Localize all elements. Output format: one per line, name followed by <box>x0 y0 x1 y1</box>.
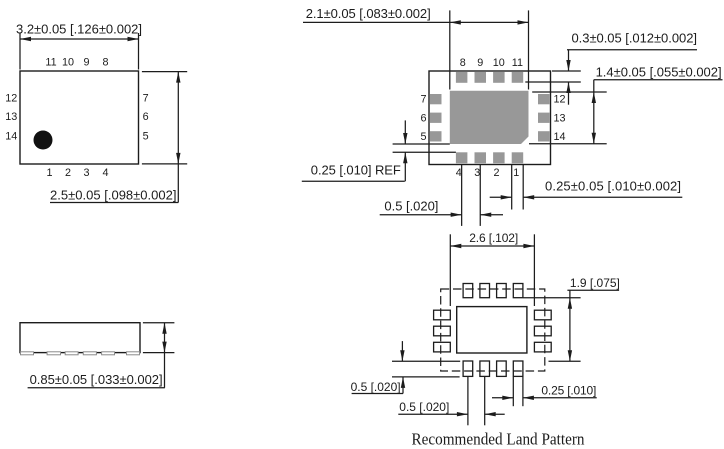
dimension 0.5 pitch label bottom view <box>380 199 503 217</box>
land pattern bottom pad b <box>480 361 490 376</box>
dimension 0.85 thickness label <box>28 372 165 388</box>
dimension 0.3 extension lines <box>525 71 581 82</box>
dimension 0.25 REF extension lines <box>393 144 456 152</box>
dimension 2.1 dimension line with arrows <box>303 20 529 24</box>
dimension 0.3 label <box>567 31 697 50</box>
bottom view pad 8 <box>456 72 468 83</box>
bottom view pad 7 <box>430 94 442 104</box>
svg-text:0.85±0.05 [.033±0.002]: 0.85±0.05 [.033±0.002] <box>30 372 163 387</box>
bottom view package outline <box>429 71 551 165</box>
dimension 2.1 extension lines <box>450 10 529 89</box>
top view pin numbers bottom row <box>46 167 108 179</box>
svg-text:9: 9 <box>83 57 89 69</box>
bottom view pad 13 <box>538 113 550 123</box>
svg-text:3: 3 <box>474 167 480 179</box>
svg-text:5: 5 <box>143 131 149 143</box>
side view terminal 1 <box>21 352 34 355</box>
dimension 0.5 pad length extension lines <box>392 361 460 377</box>
svg-text:14: 14 <box>5 131 17 143</box>
bottom view pin numbers right column <box>554 94 566 143</box>
svg-text:8: 8 <box>460 57 466 69</box>
svg-text:2.1±0.05 [.083±0.002]: 2.1±0.05 [.083±0.002] <box>306 6 431 21</box>
dimension 1.4 label <box>594 64 723 79</box>
svg-text:1.9 [.075]: 1.9 [.075] <box>570 276 620 290</box>
bottom pads extension ticks <box>462 164 524 226</box>
land pattern bottom pad c <box>497 361 507 376</box>
svg-text:10: 10 <box>62 57 74 69</box>
svg-text:14: 14 <box>554 131 566 143</box>
svg-text:11: 11 <box>512 57 523 69</box>
dimension 1.9 label <box>567 276 620 291</box>
svg-text:7: 7 <box>143 92 149 104</box>
bottom view pin numbers bottom row <box>456 167 519 179</box>
land pattern right pad a <box>534 310 551 320</box>
land pattern top pad b <box>480 284 490 298</box>
dimension 2.5 dimension line with arrows <box>176 72 180 203</box>
dimension 1.9 extension lines <box>523 298 580 362</box>
land pattern courtyard dashed outline <box>441 289 545 371</box>
svg-text:2: 2 <box>65 167 71 179</box>
top view pin numbers top row <box>45 57 108 69</box>
bottom view pad 4 <box>456 152 468 163</box>
svg-text:1: 1 <box>46 167 52 179</box>
top view pin numbers left column <box>5 92 17 142</box>
svg-text:12: 12 <box>5 92 17 104</box>
land pattern left pad a <box>434 310 451 320</box>
bottom view pad 2 <box>493 152 505 163</box>
bottom view pin numbers left column <box>420 94 426 143</box>
dimension 0.5 pad length leader arrows <box>400 341 405 393</box>
svg-text:5: 5 <box>420 131 426 143</box>
dimension 1.4 dimension line with arrows <box>592 80 596 144</box>
dimension 0.25 REF upper arrow <box>403 120 407 144</box>
svg-text:6: 6 <box>420 112 426 124</box>
svg-text:3.2±0.05 [.126±0.002]: 3.2±0.05 [.126±0.002] <box>16 22 142 37</box>
svg-text:8: 8 <box>102 57 108 69</box>
top view pin numbers right column <box>143 92 149 142</box>
land pattern top pad d <box>513 284 523 298</box>
land pattern bottom pad center ticks <box>468 377 485 425</box>
svg-text:13: 13 <box>5 111 17 123</box>
dimension 2.6 label <box>469 231 518 245</box>
bottom view pad 3 <box>475 152 487 163</box>
svg-text:2.5±0.05 [.098±0.002]: 2.5±0.05 [.098±0.002] <box>50 188 177 203</box>
svg-text:7: 7 <box>420 94 426 106</box>
svg-text:2: 2 <box>493 167 499 179</box>
pin 1 indicator dot <box>34 131 53 150</box>
side view terminal 6 <box>127 352 140 355</box>
dimension 0.85 extension lines <box>143 323 175 353</box>
side view package outline <box>20 323 140 353</box>
svg-text:Recommended Land Pattern: Recommended Land Pattern <box>412 430 585 449</box>
bottom view pad 14 <box>538 131 550 141</box>
dimension 0.25 pad width label land pattern <box>492 384 597 400</box>
land pattern left pad b <box>434 326 451 336</box>
dimension 2.5 extension lines <box>142 72 187 164</box>
land pattern right pad c <box>534 342 551 352</box>
svg-text:4: 4 <box>456 167 462 179</box>
svg-text:0.25 [.010]: 0.25 [.010] <box>541 384 596 398</box>
dimension 1.4 extension lines <box>529 92 607 144</box>
dimension 0.85 dimension line with arrows <box>162 323 166 388</box>
land pattern top pad c <box>497 284 507 298</box>
bottom view pad 12 <box>538 94 550 104</box>
dimension 3.2 dimension line with arrows <box>20 37 139 41</box>
land pattern pad d edge ticks <box>513 377 523 406</box>
dimension 0.3 leader arrows <box>566 50 570 105</box>
caption Recommended Land Pattern <box>412 430 585 449</box>
dimension 0.5 pitch label land pattern <box>398 400 504 416</box>
svg-text:9: 9 <box>477 57 483 69</box>
svg-text:0.25±0.05 [.010±0.002]: 0.25±0.05 [.010±0.002] <box>545 178 681 193</box>
top view package outline <box>20 71 139 164</box>
svg-text:4: 4 <box>102 167 108 179</box>
dimension 0.25 REF label <box>302 163 405 182</box>
dimension 0.25 REF leader arrow <box>403 152 407 181</box>
bottom view pad 1 <box>512 152 524 163</box>
svg-text:0.5 [.020]: 0.5 [.020] <box>351 380 401 394</box>
bottom view pad 6 <box>430 113 442 123</box>
svg-text:0.5 [.020]: 0.5 [.020] <box>399 400 449 414</box>
svg-text:1.4±0.05 [.055±0.002]: 1.4±0.05 [.055±0.002] <box>596 64 722 79</box>
bottom view exposed center pad <box>450 91 529 144</box>
svg-text:0.3±0.05 [.012±0.002]: 0.3±0.05 [.012±0.002] <box>572 31 698 46</box>
dimension 0.25 pad width label bottom view <box>490 178 683 199</box>
dimension 3.2 width label <box>16 22 142 37</box>
svg-text:0.5 [.020]: 0.5 [.020] <box>384 199 438 214</box>
dimension 2.5 height label <box>50 188 178 203</box>
bottom view pad 11 <box>512 72 524 83</box>
dimension 2.6 extension lines <box>450 234 534 306</box>
land pattern bottom pad a <box>463 361 473 376</box>
dimension 1.9 dimension line with arrows <box>568 290 572 361</box>
side view terminal 4 <box>83 352 96 355</box>
side view terminal 5 <box>102 352 115 355</box>
bottom view pin numbers top row <box>460 57 523 69</box>
svg-text:12: 12 <box>554 94 566 106</box>
land pattern bottom pad d <box>513 361 523 376</box>
dimension 2.1 label <box>306 6 431 21</box>
svg-text:3: 3 <box>83 167 89 179</box>
dimension 2.6 dimension line with arrows <box>450 244 534 248</box>
land pattern top pad a <box>463 284 473 298</box>
side view terminal 2 <box>47 352 60 355</box>
svg-text:6: 6 <box>143 111 149 123</box>
bottom view pad 5 <box>430 131 442 141</box>
svg-text:1: 1 <box>513 167 519 179</box>
dimension 0.5 pad length label <box>351 380 403 394</box>
svg-text:0.25 [.010] REF: 0.25 [.010] REF <box>311 163 401 178</box>
bottom view pad 9 <box>475 72 487 83</box>
land pattern left pad c <box>434 342 451 352</box>
land pattern right pad b <box>534 326 551 336</box>
side view terminal 3 <box>65 352 78 355</box>
svg-text:11: 11 <box>45 57 56 69</box>
land pattern center pad <box>457 307 527 353</box>
svg-text:2.6 [.102]: 2.6 [.102] <box>469 231 518 245</box>
svg-text:13: 13 <box>554 112 566 124</box>
svg-text:10: 10 <box>493 57 505 69</box>
dimension 3.2 extension lines <box>20 33 139 70</box>
bottom view pad 10 <box>493 72 505 83</box>
